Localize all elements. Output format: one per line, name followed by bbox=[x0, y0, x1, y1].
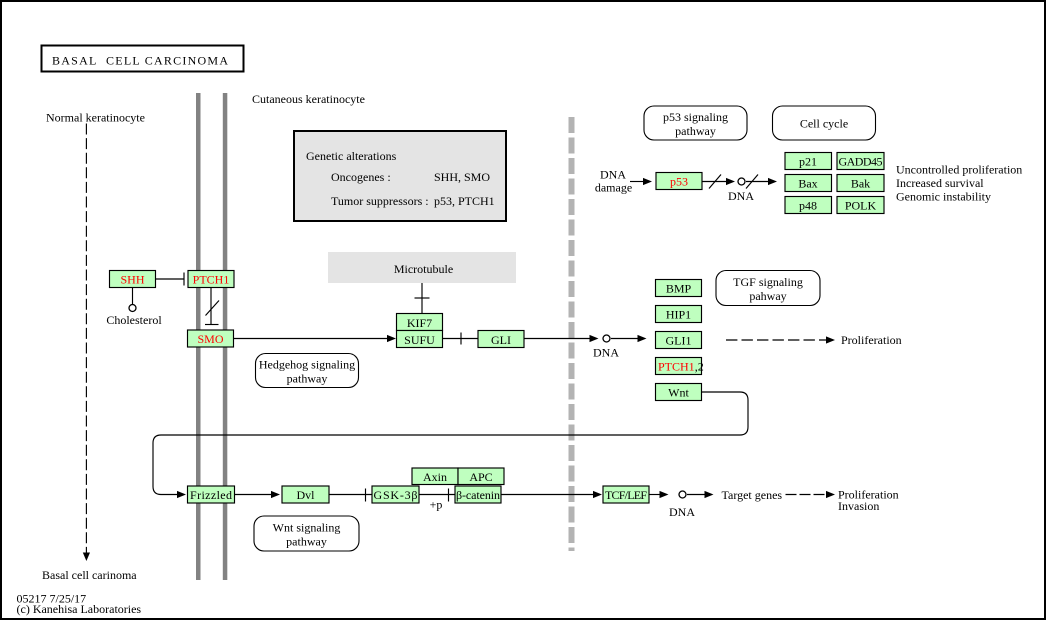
svg-text:Increased survival: Increased survival bbox=[896, 176, 984, 190]
wire GSK-3B to beta-catenin inhibition bbox=[419, 489, 455, 502]
gene box Dvl bbox=[282, 486, 329, 503]
node DNA circle wnt bbox=[679, 491, 686, 498]
svg-text:Cell cycle: Cell cycle bbox=[800, 117, 848, 131]
svg-text:damage: damage bbox=[595, 181, 632, 195]
svg-text:pathway: pathway bbox=[287, 372, 328, 386]
wire SHH to PTCH1 inhibition bbox=[156, 273, 185, 286]
wire SMO to SUFU arrow bbox=[234, 335, 397, 342]
node cholesterol circle bbox=[129, 305, 136, 312]
svg-text:SHH, SMO: SHH, SMO bbox=[434, 170, 490, 184]
svg-text:p53 signaling: p53 signaling bbox=[663, 110, 728, 124]
gene box GSK-3B bbox=[372, 486, 419, 503]
svg-text:p48: p48 bbox=[799, 199, 817, 213]
svg-text:BMP: BMP bbox=[666, 282, 692, 296]
gene box SUFU bbox=[397, 331, 443, 348]
svg-text:SUFU: SUFU bbox=[404, 333, 435, 347]
svg-text:GSK-3β: GSK-3β bbox=[374, 488, 418, 502]
svg-text:Cutaneous keratinocyte: Cutaneous keratinocyte bbox=[252, 92, 365, 106]
svg-text:Microtubule: Microtubule bbox=[394, 262, 453, 276]
svg-text:HIP1: HIP1 bbox=[666, 308, 691, 322]
wire DNA damage to p53 arrow bbox=[630, 178, 652, 185]
svg-text:PTCH1,2: PTCH1,2 bbox=[658, 360, 704, 374]
svg-text:Oncogenes :: Oncogenes : bbox=[331, 170, 391, 184]
svg-text:TCF/LEF: TCF/LEF bbox=[605, 488, 647, 502]
svg-text:Target genes: Target genes bbox=[722, 488, 783, 502]
svg-text:DNA: DNA bbox=[728, 189, 754, 203]
gene box p53 bbox=[656, 173, 702, 190]
svg-text:p53: p53 bbox=[670, 175, 688, 189]
svg-text:DNA: DNA bbox=[593, 346, 619, 360]
svg-text:Frizzled: Frizzled bbox=[190, 488, 232, 502]
membrane bar right bbox=[223, 93, 228, 580]
svg-text:pathway: pathway bbox=[286, 535, 327, 549]
svg-text:Proliferation: Proliferation bbox=[841, 333, 902, 347]
wire Dvl to GSK-3B inhibition bbox=[329, 489, 372, 502]
svg-text:APC: APC bbox=[469, 470, 492, 484]
gene box BMP bbox=[656, 280, 702, 297]
svg-text:DNA: DNA bbox=[669, 505, 695, 519]
gene box Frizzled bbox=[188, 486, 235, 503]
wire SUFU to GLI inhibition bbox=[443, 333, 479, 345]
svg-text:Genomic instability: Genomic instability bbox=[896, 190, 991, 204]
gene box SHH bbox=[110, 271, 156, 288]
wire GLI to DNA node bbox=[525, 335, 599, 342]
svg-text:POLK: POLK bbox=[845, 199, 877, 213]
svg-text:GLI1: GLI1 bbox=[666, 334, 692, 348]
gene box GLI1 bbox=[656, 332, 702, 349]
wire DNA node to Target genes arrow bbox=[687, 491, 714, 498]
svg-text:Tumor suppressors :: Tumor suppressors : bbox=[331, 194, 429, 208]
svg-text:KIF7: KIF7 bbox=[407, 316, 432, 330]
gene box Axin bbox=[412, 468, 458, 485]
gene box p21 bbox=[785, 153, 832, 170]
microtubule box bbox=[328, 252, 516, 283]
gene box GADD45 bbox=[837, 153, 884, 170]
gene box KIF7 bbox=[397, 314, 443, 331]
svg-text:DNA: DNA bbox=[600, 168, 626, 182]
svg-text:Invasion: Invasion bbox=[838, 499, 879, 513]
gene box Bax bbox=[785, 175, 832, 192]
svg-text:Axin: Axin bbox=[423, 470, 447, 484]
svg-text:p21: p21 bbox=[799, 155, 817, 169]
svg-text:Uncontrolled proliferation: Uncontrolled proliferation bbox=[896, 163, 1022, 177]
membrane bar left bbox=[196, 93, 201, 580]
svg-text:Normal keratinocyte: Normal keratinocyte bbox=[46, 111, 145, 125]
svg-text:Wnt: Wnt bbox=[668, 386, 689, 400]
wire beta-catenin to TCF/LEF arrow bbox=[501, 491, 602, 498]
svg-text:Wnt signaling: Wnt signaling bbox=[273, 521, 341, 535]
wire microtubule to KIF7 bbox=[415, 283, 430, 314]
nuclear membrane dashed bar bbox=[569, 117, 575, 551]
gene box GLI bbox=[478, 331, 524, 348]
svg-text:GADD45: GADD45 bbox=[839, 155, 883, 169]
gene box PTCH1 bbox=[188, 271, 234, 288]
gene box TCF/LEF bbox=[603, 486, 649, 503]
rounded box Wnt signaling pathway bbox=[254, 516, 359, 551]
svg-text:Dvl: Dvl bbox=[297, 488, 316, 502]
node DNA circle hedgehog bbox=[603, 335, 610, 342]
wire DNA node to GLI1 arrow bbox=[611, 335, 647, 342]
wire Frizzled to Dvl arrow bbox=[235, 491, 281, 498]
wire TCF/LEF to DNA node arrow bbox=[649, 491, 669, 498]
wire p53 to DNA node with slash bbox=[702, 175, 735, 189]
svg-text:+p: +p bbox=[430, 498, 443, 512]
dashed arrow GLI1 to Proliferation bbox=[726, 336, 835, 343]
rounded box TGF signaling pahway bbox=[716, 271, 820, 306]
svg-text:BASAL CELL CARCINOMA: BASAL CELL CARCINOMA bbox=[52, 54, 228, 68]
svg-text:pahway: pahway bbox=[749, 289, 786, 303]
gene box p48 bbox=[785, 197, 832, 214]
gene box APC bbox=[458, 468, 504, 485]
gene box PTCH1,2 bbox=[656, 358, 704, 375]
gene box POLK bbox=[837, 197, 884, 214]
gene box HIP1 bbox=[656, 306, 702, 323]
svg-text:pathway: pathway bbox=[675, 124, 716, 138]
wire DNA node to cell cycle genes with slash bbox=[746, 175, 777, 189]
label DNA damage bbox=[595, 168, 632, 195]
svg-text:SHH: SHH bbox=[120, 273, 144, 287]
gene box beta-catenin bbox=[455, 486, 501, 503]
genetic alterations box bbox=[294, 131, 506, 221]
rounded box p53 signaling pathway bbox=[644, 106, 747, 140]
gene box Wnt bbox=[656, 384, 702, 401]
dashed arrow Target genes to Proliferation/Invasion bbox=[786, 491, 836, 498]
svg-text:(c) Kanehisa Laboratories: (c) Kanehisa Laboratories bbox=[17, 602, 142, 616]
svg-text:Cholesterol: Cholesterol bbox=[106, 313, 162, 327]
svg-text:Bak: Bak bbox=[851, 177, 870, 191]
svg-text:Basal cell carinoma: Basal cell carinoma bbox=[42, 568, 137, 582]
svg-text:SMO: SMO bbox=[197, 332, 223, 346]
gene box SMO bbox=[188, 330, 234, 347]
svg-text:GLI: GLI bbox=[491, 333, 511, 347]
wire SHH to cholesterol bbox=[132, 288, 134, 305]
svg-text:Genetic alterations: Genetic alterations bbox=[306, 149, 397, 163]
dashed line normal keratinocyte to basal cell carinoma bbox=[83, 124, 90, 562]
wire PTCH1 to SMO inhibition with slash bbox=[205, 288, 219, 325]
svg-text:Bax: Bax bbox=[798, 177, 817, 191]
rounded box Hedgehog signaling pathway bbox=[256, 354, 359, 388]
svg-text:Hedgehog signaling: Hedgehog signaling bbox=[259, 358, 355, 372]
rounded box Cell cycle bbox=[773, 106, 876, 140]
svg-text:PTCH1: PTCH1 bbox=[193, 273, 230, 287]
title box BASAL CELL CARCINOMA bbox=[42, 46, 244, 72]
svg-text:TGF signaling: TGF signaling bbox=[733, 275, 803, 289]
svg-text:p53, PTCH1: p53, PTCH1 bbox=[434, 194, 495, 208]
wire Wnt feedback loop to Frizzled bbox=[153, 392, 748, 498]
node DNA circle p53 bbox=[738, 178, 745, 185]
svg-text:β-catenin: β-catenin bbox=[456, 488, 500, 502]
gene box Bak bbox=[837, 175, 884, 192]
